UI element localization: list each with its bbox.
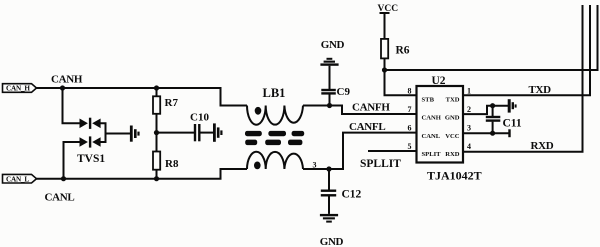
svg-text:CAN_L: CAN_L	[6, 175, 29, 183]
svg-text:U2: U2	[432, 75, 446, 87]
diode pair TVS1 bottom	[80, 136, 101, 147]
svg-text:CANFH: CANFH	[352, 101, 390, 113]
wire R7 top stub	[156, 88, 158, 96]
svg-text:4: 4	[467, 142, 471, 151]
wire GND pin to chassis	[463, 106, 508, 114]
svg-text:GND: GND	[321, 39, 345, 51]
wire VCC pin stub	[463, 132, 510, 134]
op-amp U2 body	[417, 86, 464, 163]
junction dot split node	[154, 130, 159, 135]
svg-text:TVS1: TVS1	[77, 153, 105, 165]
svg-text:C10: C10	[190, 111, 209, 123]
ground symbol below C12 (earth)	[320, 214, 338, 223]
svg-text:GND: GND	[320, 236, 344, 247]
svg-text:5: 5	[408, 142, 412, 151]
wire R6 to STB	[385, 58, 417, 95]
junction dot C12 node	[326, 166, 331, 171]
svg-text:TXD: TXD	[446, 96, 460, 103]
wire R8 bottom stub	[156, 170, 158, 179]
junction dot CANH/R7	[154, 85, 159, 90]
junction dot CANH/TVS	[60, 85, 65, 90]
wire TVS to chassis ground	[106, 133, 131, 135]
svg-text:VCC: VCC	[378, 4, 399, 14]
svg-text:3: 3	[467, 124, 471, 133]
svg-text:SPLIT: SPLIT	[422, 151, 442, 158]
svg-text:STB: STB	[422, 96, 435, 103]
wire TXD	[463, 5, 590, 95]
svg-text:C9: C9	[337, 86, 351, 98]
junction dot VCC net	[382, 67, 387, 72]
wire C10 to chassis ground	[201, 132, 214, 134]
connector tag CAN_H	[3, 84, 37, 93]
terminal bar VCC stub	[508, 129, 510, 137]
svg-text:6: 6	[408, 124, 412, 133]
svg-text:LB1: LB1	[263, 86, 286, 100]
wire choke top to CANFH	[303, 106, 417, 115]
resistor R7	[153, 96, 160, 114]
svg-text:CANH: CANH	[51, 73, 83, 85]
svg-text:C12: C12	[342, 188, 362, 200]
svg-text:R7: R7	[165, 97, 179, 109]
junction dot CANL/TVS	[61, 176, 66, 181]
connector tag CAN_L	[3, 174, 37, 183]
phase dot top winding	[255, 107, 262, 115]
wire TVS bottom branch	[64, 142, 80, 179]
capacitor C9	[321, 66, 336, 106]
phase dot bottom winding	[254, 162, 261, 170]
svg-text:TXD: TXD	[529, 84, 552, 96]
wire choke bottom to CANFL	[303, 133, 417, 169]
svg-text:1: 1	[467, 87, 471, 96]
wire CANL rail	[37, 169, 248, 179]
svg-text:VCC: VCC	[445, 133, 460, 140]
wire VCC net to top right	[385, 5, 598, 70]
svg-text:8: 8	[408, 87, 412, 96]
inductor LB1 bottom winding	[247, 152, 303, 169]
wire RXD	[463, 5, 583, 152]
diode pair TVS1 top	[80, 118, 101, 129]
capacitor C11	[486, 106, 501, 134]
svg-text:C11: C11	[503, 118, 522, 130]
svg-text:RXD: RXD	[445, 151, 460, 158]
svg-text:2: 2	[467, 105, 471, 114]
svg-text:GND: GND	[445, 115, 460, 122]
svg-text:R8: R8	[165, 158, 179, 170]
wire TVS right link	[100, 123, 106, 142]
svg-text:7: 7	[408, 105, 412, 114]
junction dot C11 top	[490, 103, 495, 108]
svg-text:CANL: CANL	[422, 133, 441, 140]
svg-text:CANH: CANH	[422, 115, 442, 122]
capacitor C12	[321, 169, 336, 214]
choke core dashes	[245, 131, 304, 145]
chassis ground (sideways) at pin2	[508, 99, 517, 112]
wire split node to C10	[157, 132, 195, 134]
capacitor C10	[195, 124, 199, 141]
junction dot CANL/R8	[154, 176, 159, 181]
power flag VCC	[380, 13, 390, 39]
ground symbol above C9 (flipped earth)	[320, 58, 338, 66]
svg-text:R6: R6	[396, 44, 410, 56]
svg-text:SPLLIT: SPLLIT	[360, 158, 401, 170]
wire R7-R8 middle	[156, 114, 158, 152]
wire CANH rail	[37, 88, 248, 106]
chassis ground (sideways) at C10	[213, 123, 223, 141]
junction dot C11 bottom	[490, 131, 495, 136]
inductor LB1 top winding	[247, 106, 303, 125]
svg-text:TJA1042T: TJA1042T	[427, 169, 482, 183]
svg-text:CANFL: CANFL	[349, 121, 385, 133]
resistor R8	[153, 152, 160, 170]
junction dot C9 node	[327, 103, 332, 108]
svg-text:CANL: CANL	[45, 191, 75, 203]
wire SPLIT pin stub	[368, 150, 417, 152]
svg-text:CAN_H: CAN_H	[6, 85, 30, 93]
chassis ground (sideways) at TVS	[130, 126, 140, 142]
wire TVS top branch	[63, 88, 80, 123]
svg-text:RXD: RXD	[531, 140, 554, 152]
resistor R6	[381, 39, 388, 59]
